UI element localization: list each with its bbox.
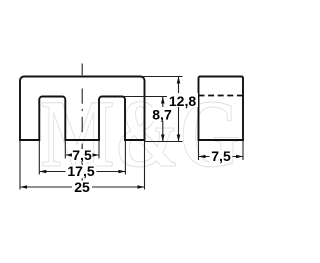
label 7,5 right (210, 150, 233, 163)
extension lines 12,8 top and bottom (142, 76, 183, 78)
label 8,7 (150, 107, 174, 121)
dimension line 12,8 (178, 77, 180, 142)
extension lines 17,5 (38, 141, 40, 175)
svg-text:8,7: 8,7 (152, 107, 172, 123)
extension lines 7,5 right (198, 141, 200, 160)
svg-text:12,8: 12,8 (169, 93, 196, 109)
dimension line 8,7 (162, 97, 164, 142)
label 12,8 (167, 93, 198, 107)
label 7,5 left (72, 149, 93, 162)
dimension line 17,5 (39, 171, 125, 173)
side view dashed gap line (199, 95, 244, 97)
extension lines 25 (19, 141, 21, 190)
centerline front view (81, 64, 83, 181)
label 17,5 (66, 165, 97, 178)
svg-text:7,5: 7,5 (211, 148, 231, 164)
extension line 8,7 top (from slot corner) (124, 96, 168, 98)
svg-text:25: 25 (74, 179, 90, 195)
svg-text:7,5: 7,5 (72, 147, 92, 163)
dimension line 25 (20, 186, 145, 188)
extension lines 7,5 bottom left (64, 141, 66, 159)
E-core front view outline (20, 77, 145, 141)
side view body (199, 77, 244, 141)
label 25 (72, 181, 92, 193)
dimension line 7,5 left (65, 154, 99, 156)
svg-text:17,5: 17,5 (67, 163, 94, 179)
dimension line 7,5 right (199, 156, 244, 158)
